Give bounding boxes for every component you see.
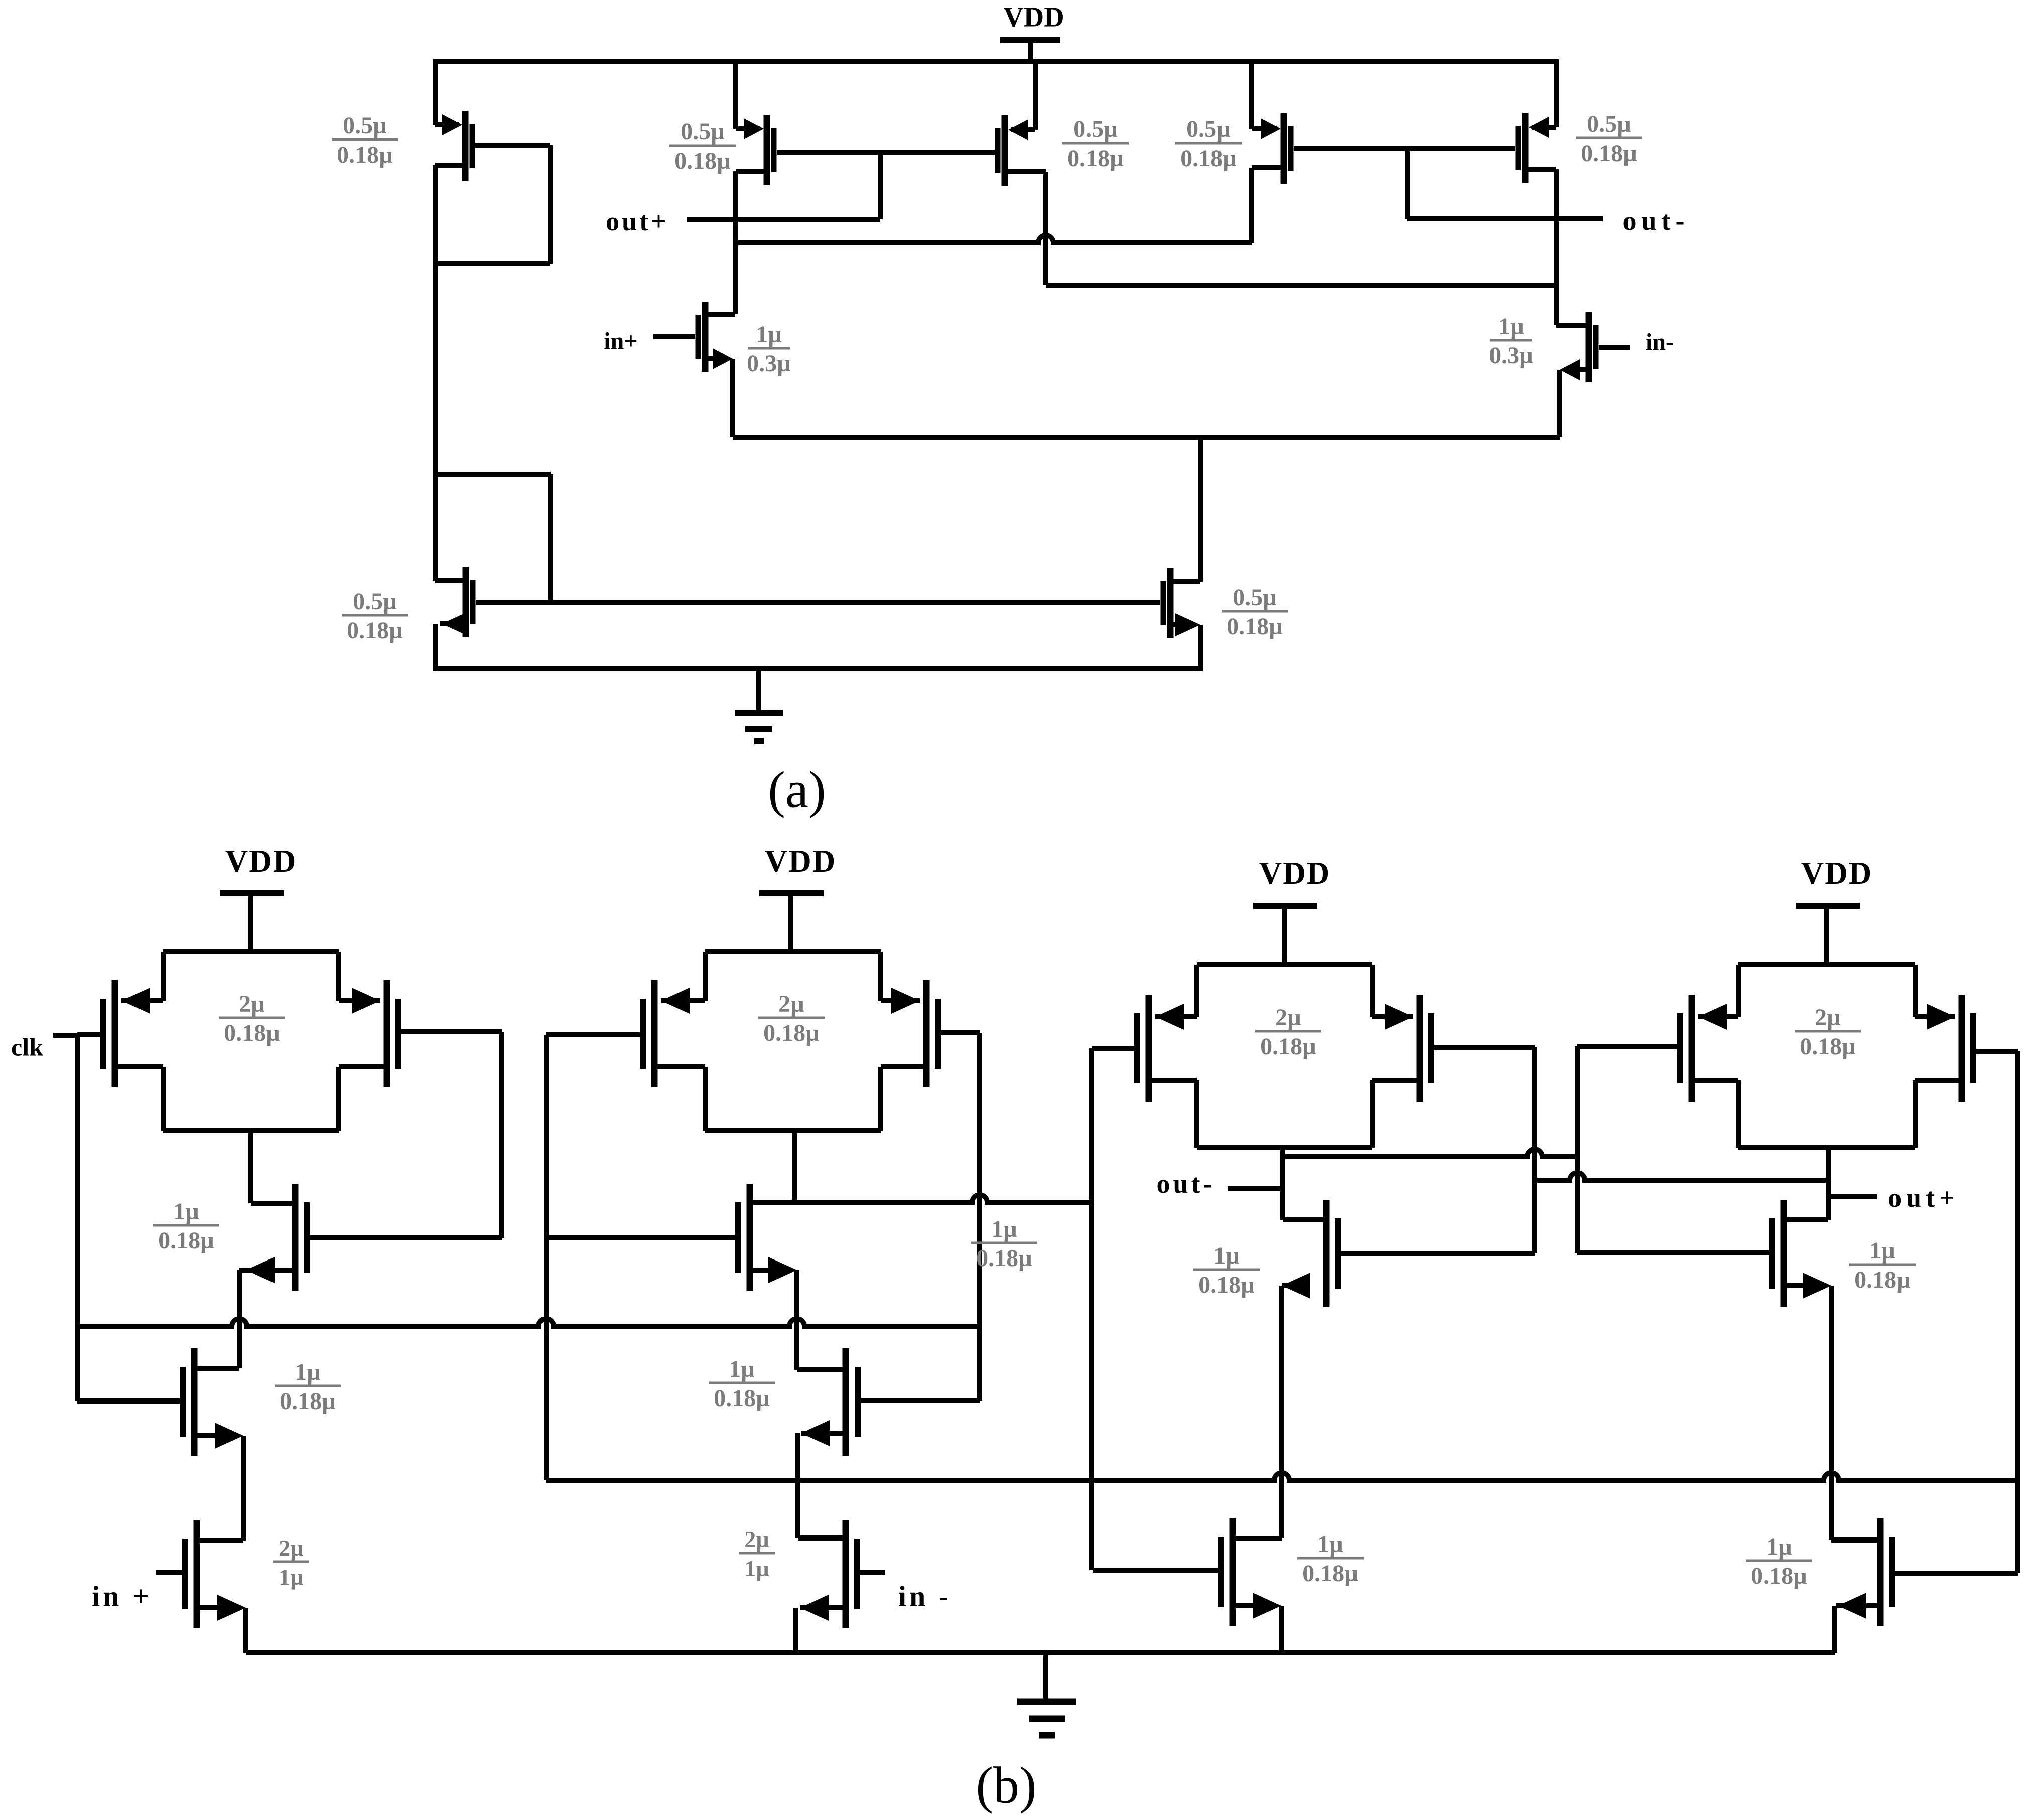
transistor N6 NMOS input 1u/0.18u stage3 bbox=[1221, 1518, 1282, 1626]
wire P3/N3 gate coupling vertical bbox=[544, 1035, 549, 1480]
wire NA2 gate lead bbox=[861, 1398, 980, 1403]
wire N1 gate lead bbox=[310, 1235, 502, 1240]
svg-text:1µ: 1µ bbox=[295, 1359, 321, 1385]
value label N7 1u/0.18u bbox=[1849, 1237, 1916, 1293]
value label pair3 2u/0.18u bbox=[1255, 1004, 1321, 1060]
node in+ label bbox=[604, 328, 637, 354]
wire clk bus horizontal bbox=[77, 1319, 980, 1326]
value label T7 0.5u/0.18u bbox=[342, 588, 408, 644]
svg-text:0.18µ: 0.18µ bbox=[976, 1245, 1032, 1272]
value label NA 1u/0.18u bbox=[275, 1359, 341, 1415]
wire T5 source to rail bbox=[1554, 59, 1559, 127]
wire in- lead stage2 bbox=[860, 1570, 885, 1575]
svg-text:1µ: 1µ bbox=[173, 1198, 199, 1225]
svg-text:0.5µ: 0.5µ bbox=[343, 112, 387, 139]
wire ground rail (b) bbox=[246, 1650, 1835, 1655]
wire bottom rail bbox=[433, 666, 1203, 671]
wire left rail upper bbox=[433, 59, 438, 125]
svg-text:2µ: 2µ bbox=[239, 991, 265, 1017]
svg-text:0.18µ: 0.18µ bbox=[1260, 1033, 1316, 1060]
wire stage4 out to stage3 gates (line B) bbox=[1535, 1173, 1828, 1180]
node VDD label stage4 bbox=[1801, 856, 1873, 891]
value label pair1 2u/0.18u bbox=[219, 991, 285, 1046]
wire P6 gate to N5 gate bbox=[1434, 1047, 1535, 1253]
wire P1 gate lead bbox=[77, 1032, 100, 1037]
wire T2 drain down to T6 drain bbox=[733, 171, 738, 314]
wire T7-T8 gate line bbox=[476, 600, 1160, 605]
wire stage3 gate vertical bbox=[1089, 1048, 1094, 1570]
wire left rail middle (T1 drain to T7 drain) bbox=[433, 165, 438, 581]
wire N8 source to ground rail bbox=[1832, 1606, 1837, 1653]
wire NB source to ground rail bbox=[243, 1608, 248, 1653]
wire out- tap bbox=[1405, 149, 1410, 219]
value label pair4 2u/0.18u bbox=[1795, 1004, 1861, 1060]
wire P3 gate lead bbox=[546, 1032, 640, 1037]
svg-text:0.5µ: 0.5µ bbox=[681, 118, 725, 145]
value label N5 1u/0.18u bbox=[1193, 1242, 1260, 1298]
svg-text:2µ: 2µ bbox=[778, 991, 804, 1017]
node out+ label (b) bbox=[1888, 1183, 1959, 1213]
svg-text:0.18µ: 0.18µ bbox=[1751, 1563, 1807, 1589]
svg-text:0.18µ: 0.18µ bbox=[1854, 1267, 1911, 1293]
wire out+ tap bbox=[878, 152, 883, 219]
wire stage3 center tap bbox=[1280, 1148, 1285, 1220]
ground symbol (b) bbox=[1017, 1653, 1076, 1735]
svg-text:(a): (a) bbox=[768, 761, 826, 818]
svg-text:clk: clk bbox=[11, 1033, 43, 1061]
wire T4 drain to out- node long horizontal bbox=[736, 235, 1252, 243]
svg-text:0.3µ: 0.3µ bbox=[747, 350, 791, 377]
wire out+ lead bbox=[687, 217, 880, 222]
wire T4 source to rail bbox=[1249, 59, 1254, 129]
transistor T8 NMOS 0.5u/0.18u bbox=[1163, 568, 1200, 638]
caption (a) bbox=[768, 761, 826, 818]
power VDD symbol stage4 bbox=[1796, 906, 1860, 965]
svg-text:1µ: 1µ bbox=[1498, 313, 1524, 340]
wire T4 drain down bbox=[1249, 168, 1254, 243]
node clk label bbox=[11, 1033, 43, 1061]
wire P7/N7 gate vertical bbox=[1575, 1046, 1580, 1253]
wire T7 gate loop bbox=[435, 474, 551, 602]
svg-text:VDD: VDD bbox=[1003, 2, 1064, 33]
node out- label (b) bbox=[1157, 1169, 1215, 1199]
svg-text:0.5µ: 0.5µ bbox=[353, 588, 397, 615]
node out+ label bbox=[606, 206, 669, 236]
wire in- lead bbox=[1599, 345, 1630, 350]
wire tail node horizontal bbox=[733, 435, 1560, 440]
svg-text:0.18µ: 0.18µ bbox=[1800, 1033, 1856, 1060]
svg-text:0.5µ: 0.5µ bbox=[1186, 116, 1231, 143]
transistor NA NMOS 1u/0.18u clk-injection stage1 bbox=[183, 1348, 243, 1456]
wire clk lead bbox=[53, 1033, 77, 1038]
wire N5 gate lead bbox=[1341, 1251, 1535, 1256]
node VDD label bbox=[1003, 2, 1064, 33]
svg-text:0.18µ: 0.18µ bbox=[1067, 145, 1124, 172]
svg-text:1µ: 1µ bbox=[756, 321, 782, 348]
svg-text:2µ: 2µ bbox=[1815, 1004, 1841, 1031]
transistor T9 NMOS in- 1u/0.3u bbox=[1556, 312, 1596, 382]
wire N1 source down to NA drain bbox=[237, 1270, 242, 1368]
svg-text:0.3µ: 0.3µ bbox=[1489, 342, 1533, 369]
wire P8 gate vertical (to out- bus) bbox=[2015, 1051, 2020, 1573]
transistor N7 NMOS 1u/0.18u stage4 bbox=[1772, 1200, 1831, 1307]
svg-text:out-: out- bbox=[1623, 206, 1690, 236]
svg-text:(b): (b) bbox=[976, 1756, 1036, 1814]
wire T1 gate loop bbox=[435, 145, 550, 264]
value label T1 0.5u/0.18u bbox=[332, 112, 398, 168]
power VDD symbol stage1 bbox=[220, 893, 284, 952]
wire left rail lower (T7 source to ground rail) bbox=[433, 624, 438, 671]
svg-text:1µ: 1µ bbox=[1766, 1533, 1792, 1560]
wire P8 gate lead bbox=[1976, 1049, 2018, 1054]
svg-text:out+: out+ bbox=[606, 206, 669, 236]
wire T3 drain down bbox=[1043, 172, 1048, 285]
ground symbol (a) bbox=[735, 669, 783, 741]
transistor NA2 NMOS 1u/0.18u stage2 bbox=[797, 1348, 858, 1456]
svg-text:2µ: 2µ bbox=[1275, 1004, 1301, 1031]
power VDD symbol stage2 bbox=[759, 893, 824, 952]
value label N8 1u/0.18u bbox=[1746, 1533, 1812, 1589]
value label T2 0.5u/0.18u bbox=[669, 118, 736, 174]
wire clk vertical bbox=[75, 1035, 80, 1401]
wire out- lead (b) bbox=[1228, 1186, 1283, 1191]
transistor T1 PMOS 0.5u/0.18u bbox=[435, 111, 472, 181]
transistor T3 PMOS 0.5u/0.18u bbox=[998, 115, 1046, 186]
wire N5 source down to N6 drain bbox=[1279, 1286, 1284, 1538]
svg-text:VDD: VDD bbox=[225, 844, 297, 879]
wire NA2 source down to NB2 drain bbox=[795, 1433, 800, 1538]
power VDD symbol stage3 bbox=[1253, 906, 1317, 965]
transistor NB NMOS in+ 2u/1u stage1 bbox=[185, 1520, 246, 1628]
wire N8 gate lead bbox=[1895, 1571, 2018, 1576]
caption (b) bbox=[976, 1756, 1036, 1814]
transistor P1 PMOS 2u/0.18u stage1 bbox=[103, 980, 163, 1087]
wire PMOS pair box stage1 bbox=[163, 952, 339, 1131]
wire P7 gate lead bbox=[1577, 1044, 1677, 1049]
svg-text:1µ: 1µ bbox=[729, 1356, 755, 1382]
svg-text:0.18µ: 0.18µ bbox=[158, 1227, 214, 1254]
svg-text:0.18µ: 0.18µ bbox=[1198, 1272, 1255, 1298]
wire stage2 center tap bbox=[792, 1131, 797, 1202]
node VDD label stage2 bbox=[765, 844, 837, 879]
value label T3 0.5u/0.18u bbox=[1062, 116, 1129, 172]
transistor P5 PMOS 2u/0.18u stage3 bbox=[1137, 995, 1197, 1102]
wire P4 gate vertical to NA2 gate bbox=[977, 1033, 982, 1401]
svg-text:0.18µ: 0.18µ bbox=[280, 1388, 336, 1415]
wire N6 source to ground rail bbox=[1279, 1606, 1284, 1653]
svg-text:0.5µ: 0.5µ bbox=[1587, 111, 1631, 137]
transistor N8 NMOS input 1u/0.18u stage4 bbox=[1831, 1518, 1892, 1626]
wire NB2 source to ground rail bbox=[793, 1608, 798, 1653]
svg-text:0.18µ: 0.18µ bbox=[1302, 1560, 1359, 1587]
transistor NB2 NMOS in- 2u/1u stage2 bbox=[798, 1520, 857, 1628]
value label NB 2u/1u bbox=[273, 1535, 309, 1590]
value label N3 1u/0.18u bbox=[971, 1216, 1037, 1272]
value label T5 0.5u/0.18u bbox=[1576, 111, 1642, 167]
wire out- lead bbox=[1407, 216, 1603, 221]
svg-text:out+: out+ bbox=[1888, 1183, 1959, 1213]
svg-text:1µ: 1µ bbox=[1869, 1237, 1895, 1264]
value label T6 1u/0.3u bbox=[747, 321, 791, 377]
svg-text:in +: in + bbox=[92, 1580, 152, 1612]
wire N7 source down to N8 drain bbox=[1829, 1286, 1834, 1540]
wire T2-T3 gate line bbox=[777, 150, 995, 155]
svg-text:VDD: VDD bbox=[765, 844, 837, 879]
transistor N1 NMOS 1u/0.18u stage1 bbox=[239, 1184, 307, 1291]
transistor P2 PMOS 2u/0.18u stage1 bbox=[339, 980, 398, 1087]
svg-text:1µ: 1µ bbox=[991, 1216, 1017, 1242]
svg-text:0.5µ: 0.5µ bbox=[1233, 584, 1277, 611]
value label N6 1u/0.18u bbox=[1297, 1531, 1364, 1587]
wire PMOS pair box stage3 bbox=[1197, 965, 1372, 1148]
wire N3 gate lead bbox=[546, 1235, 735, 1240]
wire NA source down to NB drain bbox=[241, 1436, 246, 1541]
svg-text:0.18µ: 0.18µ bbox=[337, 142, 393, 168]
transistor P4 PMOS 2u/0.18u stage2 bbox=[881, 980, 938, 1087]
wire T4-T5 gate line bbox=[1294, 146, 1515, 151]
svg-text:in-: in- bbox=[1646, 329, 1674, 355]
wire NA gate lead bbox=[77, 1398, 180, 1404]
value label T4 0.5u/0.18u bbox=[1175, 116, 1242, 172]
svg-text:0.18µ: 0.18µ bbox=[224, 1020, 280, 1046]
power VDD symbol bbox=[1000, 40, 1060, 62]
wire P4 gate lead bbox=[941, 1030, 980, 1035]
wire PMOS pair box stage2 bbox=[705, 952, 881, 1131]
transistor P6 PMOS 2u/0.18u stage3 bbox=[1372, 995, 1431, 1102]
wire T6 source down bbox=[730, 359, 735, 437]
svg-text:0.18µ: 0.18µ bbox=[1581, 140, 1637, 167]
transistor P7 PMOS 2u/0.18u stage4 bbox=[1680, 995, 1738, 1102]
svg-text:in -: in - bbox=[898, 1580, 952, 1612]
wire in+ lead bbox=[653, 334, 695, 339]
wire top VDD rail bbox=[433, 59, 1556, 64]
transistor T5 PMOS 0.5u/0.18u bbox=[1518, 113, 1556, 183]
value label pair2 2u/0.18u bbox=[758, 991, 825, 1046]
wire out- bus horizontal bbox=[546, 1473, 2018, 1480]
transistor T4 PMOS 0.5u/0.18u bbox=[1252, 113, 1291, 184]
svg-text:VDD: VDD bbox=[1801, 856, 1873, 891]
wire T3 source to rail bbox=[1033, 59, 1038, 130]
node out- label bbox=[1623, 206, 1690, 236]
wire stage3 out to stage4 gates (line A) bbox=[1283, 1149, 1577, 1157]
wire N7 gate lead bbox=[1577, 1250, 1769, 1255]
svg-text:0.18µ: 0.18µ bbox=[714, 1385, 770, 1412]
value label NA2 1u/0.18u bbox=[709, 1356, 775, 1412]
wire in+ lead stage1 bbox=[156, 1570, 182, 1575]
svg-text:2µ: 2µ bbox=[744, 1526, 769, 1552]
svg-text:0.18µ: 0.18µ bbox=[1227, 613, 1283, 640]
wire T3 drain to out- node bbox=[1046, 283, 1556, 288]
svg-text:1µ: 1µ bbox=[279, 1564, 304, 1590]
value label T9 1u/0.3u bbox=[1489, 313, 1533, 369]
svg-text:1µ: 1µ bbox=[1213, 1242, 1240, 1269]
svg-text:0.18µ: 0.18µ bbox=[347, 617, 403, 644]
wire PMOS pair box stage4 bbox=[1738, 965, 1915, 1148]
wire tail down to T8 drain bbox=[1198, 437, 1203, 582]
svg-text:out-: out- bbox=[1157, 1169, 1215, 1199]
transistor T7 NMOS 0.5u/0.18u bbox=[435, 567, 473, 637]
wire T9 source down bbox=[1557, 370, 1562, 437]
transistor P3 PMOS 2u/0.18u stage2 bbox=[643, 980, 705, 1087]
node VDD label stage1 bbox=[225, 844, 297, 879]
svg-text:0.18µ: 0.18µ bbox=[674, 148, 731, 174]
wire N6 gate lead bbox=[1093, 1568, 1218, 1573]
node VDD label stage3 bbox=[1259, 856, 1331, 891]
value label T8 0.5u/0.18u bbox=[1222, 584, 1288, 640]
svg-text:in+: in+ bbox=[604, 328, 637, 354]
wire T8 source down bbox=[1198, 625, 1203, 671]
svg-text:2µ: 2µ bbox=[279, 1535, 304, 1561]
wire stage1 center tap bbox=[248, 1131, 253, 1203]
transistor N3 NMOS 1u/0.18u stage2 bbox=[738, 1184, 1092, 1291]
wire stage4 center tap bbox=[1826, 1148, 1831, 1220]
transistor P8 PMOS 2u/0.18u stage4 bbox=[1915, 995, 1973, 1102]
svg-text:0.5µ: 0.5µ bbox=[1073, 116, 1118, 143]
wire N3 source down to NA2 drain bbox=[794, 1270, 799, 1370]
node in+ label bbox=[92, 1580, 152, 1612]
wire out+ lead (b) bbox=[1828, 1194, 1877, 1199]
svg-text:VDD: VDD bbox=[1259, 856, 1331, 891]
wire T5 drain down to T9 drain bbox=[1554, 169, 1559, 325]
wire P5 gate lead bbox=[1092, 1046, 1134, 1051]
transistor N5 NMOS 1u/0.18u stage3 bbox=[1282, 1200, 1338, 1307]
transistor T2 PMOS 0.5u/0.18u bbox=[736, 115, 774, 185]
value label N1 1u/0.18u bbox=[153, 1198, 219, 1254]
svg-text:1µ: 1µ bbox=[1317, 1531, 1343, 1558]
value label NB2 2u/1u bbox=[739, 1526, 775, 1581]
transistor T6 NMOS in+ 1u/0.3u bbox=[698, 302, 735, 372]
wire P2 gate to N1 gate bbox=[401, 1032, 502, 1238]
svg-text:0.18µ: 0.18µ bbox=[763, 1020, 820, 1046]
node in- label bbox=[898, 1580, 952, 1612]
svg-text:1µ: 1µ bbox=[744, 1556, 769, 1581]
node in- label bbox=[1646, 329, 1674, 355]
wire T2 source to rail bbox=[733, 59, 738, 129]
svg-text:0.18µ: 0.18µ bbox=[1180, 145, 1237, 172]
